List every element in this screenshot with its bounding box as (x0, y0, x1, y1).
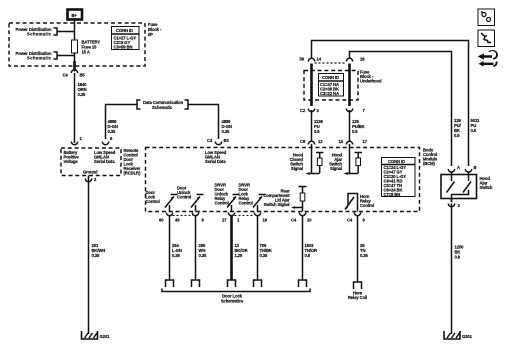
svg-text:B3: B3 (224, 138, 230, 143)
BCM top pin 12 connector (300, 139, 323, 145)
wire label 251 BK/WH 0.35 (92, 243, 106, 258)
svg-text:Switch Signal: Switch Signal (264, 202, 290, 207)
svg-text:12: 12 (318, 139, 323, 144)
svg-text:Schematics: Schematics (221, 299, 244, 304)
BCM GMLAN pin connector C4 B3 (207, 138, 229, 145)
svg-text:0.5: 0.5 (314, 129, 320, 134)
svg-text:Signal: Signal (291, 166, 303, 171)
svg-text:Control: Control (239, 201, 253, 206)
svg-text:0.35: 0.35 (222, 129, 231, 134)
CONN ID table (fuse block) (112, 27, 140, 50)
svg-text:Underhood: Underhood (360, 79, 382, 84)
svg-text:I/P: I/P (148, 32, 153, 37)
battery B+ terminal (68, 10, 83, 20)
wire BCM pin A down to door lock schematics (169, 216, 171, 281)
wire label 1250 BK 0.8 (455, 245, 465, 260)
svg-text:Signal: Signal (330, 166, 342, 171)
svg-text:G301: G301 (462, 334, 473, 339)
RCDLR pin text low speed GMLAN serial data (94, 150, 116, 164)
svg-text:Voltage: Voltage (64, 159, 79, 164)
wire label 1139 PU 0.5 (314, 119, 323, 134)
svg-text:59: 59 (300, 57, 305, 62)
svg-text:C4: C4 (291, 218, 297, 223)
svg-text:0.35: 0.35 (172, 253, 181, 258)
svg-text:10: 10 (307, 218, 312, 223)
RCDLR dashed box (61, 148, 121, 176)
svg-text:17: 17 (363, 139, 368, 144)
svg-text:0.35: 0.35 (360, 253, 369, 258)
svg-text:C3=59 BN: C3=59 BN (114, 45, 133, 50)
wire B+ down to fuse (74, 20, 76, 41)
svg-text:B+: B+ (72, 13, 78, 18)
underhood fuse block dashed box (304, 71, 358, 101)
svg-text:CONN ID: CONN ID (116, 28, 133, 33)
RCDLR pin text battery positive voltage (64, 150, 80, 164)
label RCDLR (124, 148, 141, 176)
icon recycle arrows (478, 50, 498, 67)
wire label 4889 D-GN 0.35 (right) (222, 119, 232, 134)
wire BCM pin F down to horn relay (357, 216, 359, 283)
wire BCM pin B down (195, 216, 197, 281)
connector C4 / B5 below fuse block (63, 61, 86, 78)
svg-text:0.5: 0.5 (454, 133, 460, 138)
svg-text:A: A (457, 165, 460, 170)
svg-text:CONN ID: CONN ID (388, 159, 405, 164)
wire label 294 L-GN 0.35 (172, 243, 182, 258)
label Body Control Module (BCM) (423, 148, 438, 167)
terminal pin B (192, 280, 200, 287)
terminal pin E (299, 280, 307, 287)
hood ajar switch pin A connector (448, 165, 460, 172)
icon box key 1 (478, 9, 495, 26)
svg-text:0.35: 0.35 (199, 253, 208, 258)
BCM pin E connector C4 / 10 (291, 213, 312, 223)
svg-text:Relay Coil: Relay Coil (348, 295, 367, 300)
hood ajar switch bottom pin 3 connector (448, 199, 460, 209)
svg-text:1.25: 1.25 (235, 253, 244, 258)
svg-text:G201: G201 (100, 334, 111, 339)
RCDLR pin 6 connector (102, 136, 113, 145)
svg-text:Control: Control (177, 195, 191, 200)
wire data comm to BCM GMLAN pin (188, 105, 219, 140)
BCM pin B connector 8 (192, 213, 204, 223)
svg-text:Serial Data: Serial Data (94, 159, 115, 164)
svg-text:0.5: 0.5 (305, 253, 311, 258)
BCM input pin E rear compartment lid ajar switch signal (263, 187, 306, 212)
power distribution schematic reference 2 (16, 51, 75, 61)
BCM top pin 17 connector (339, 139, 368, 145)
svg-text:(RCDLR): (RCDLR) (124, 171, 141, 176)
BCM output driver pin D DRVR door lock relay control (239, 183, 266, 212)
dotted link connector 14 to 16 (315, 62, 347, 64)
wire BCM pin D down (257, 216, 259, 281)
wire fuse block to RCDLR pin 1 (74, 73, 76, 143)
svg-text:Control: Control (146, 199, 160, 204)
connector 59 14 (300, 57, 322, 62)
svg-text:Schematic: Schematic (27, 32, 52, 37)
wire label 5011 PU 0.5 (right of switch) (471, 118, 480, 133)
svg-text:B5: B5 (80, 73, 86, 78)
wire label 709 TN/BK 0.35 (260, 243, 272, 258)
label hood ajar switch (480, 176, 493, 190)
BCM relay driver pin F horn relay control (345, 194, 374, 212)
svg-text:0.35: 0.35 (260, 253, 269, 258)
svg-text:C9: C9 (300, 139, 306, 144)
horn relay coil terminal (348, 282, 367, 300)
wire label 139 PU/ BK 0.5 (left of switch) (454, 118, 462, 138)
wire hood closed circuit up and right to switch (312, 41, 469, 167)
svg-text:0.8: 0.8 (455, 255, 461, 260)
dotted link pin A to pin B (173, 215, 194, 217)
fuse block I/P dashed box (9, 23, 145, 66)
svg-text:(BCM): (BCM) (423, 161, 436, 166)
svg-text:CONN ID: CONN ID (322, 75, 339, 80)
wire fuse to bottom edge (74, 53, 76, 72)
wire label 4889 D-GN 0.35 (left) (108, 119, 118, 134)
svg-text:14: 14 (317, 57, 322, 62)
door lock schematics bracket (162, 289, 310, 304)
svg-text:14: 14 (339, 139, 344, 144)
wire label 13 BK/OR 1.25 (235, 243, 248, 258)
BCM pin C connector 27 / 1 (222, 213, 240, 223)
ground G301 (444, 331, 473, 339)
bold wire segment through underhood block (right) (348, 64, 351, 107)
svg-text:Schematic: Schematic (152, 105, 173, 110)
CONN ID table (BCM) (382, 158, 416, 198)
svg-text:Control: Control (215, 201, 229, 206)
svg-text:Control: Control (360, 203, 374, 208)
svg-text:0.5: 0.5 (352, 129, 358, 134)
svg-text:0.35: 0.35 (92, 253, 101, 258)
svg-text:Schematic: Schematic (27, 56, 52, 61)
svg-text:C4: C4 (347, 218, 353, 223)
svg-text:Switch: Switch (480, 185, 493, 190)
connector 7 (346, 108, 365, 113)
label Fuse Block I/P (148, 22, 162, 37)
wire label 28 TN 0.35 (360, 243, 369, 258)
svg-text:16: 16 (360, 57, 365, 62)
svg-text:15 A: 15 A (82, 50, 90, 55)
wire RCDLR ground down (88, 176, 90, 335)
svg-text:C2: C2 (300, 108, 306, 113)
BCM text low speed GMLAN serial data (205, 150, 227, 164)
connector 16 (346, 57, 365, 62)
BCM pin F connector C4 / 9 (347, 213, 366, 223)
ground G201 (82, 331, 111, 339)
wire pin17 up to connector 7 (349, 110, 351, 142)
svg-text:B: B (474, 165, 477, 170)
terminal pin C (228, 280, 236, 287)
BCM pin A connector 60 / 49 (159, 213, 180, 223)
BCM pin D connector 16 (254, 213, 267, 223)
svg-text:0.35: 0.35 (78, 92, 87, 97)
svg-text:C7=8 BN: C7=8 BN (384, 192, 401, 197)
wire data comm to RCDLR pin 6 (106, 105, 138, 140)
svg-text:Ground: Ground (83, 170, 98, 175)
icon box key 2 (478, 30, 495, 47)
svg-text:27: 27 (222, 218, 227, 223)
connector C2 3 (300, 108, 320, 113)
data communication schematic reference (137, 100, 188, 110)
wire BCM pin C down (bold) (230, 216, 233, 281)
terminal pin D (254, 280, 262, 287)
RCDLR ground pin connector (85, 177, 97, 182)
svg-text:0.5: 0.5 (471, 128, 477, 133)
wire label 295 WH 0.35 (199, 243, 208, 258)
svg-text:C4: C4 (63, 73, 69, 78)
RCDLR pin 1 connector (71, 136, 82, 145)
svg-text:16: 16 (263, 218, 268, 223)
svg-text:0.35: 0.35 (108, 129, 117, 134)
BCM output driver pin C DRVR door unlock relay control (215, 183, 240, 212)
BCM input pin 1 hood closed switch signal with pullup resistor (290, 144, 324, 175)
BCM dashed box (146, 148, 420, 212)
hood ajar switch pin B connector (465, 165, 476, 172)
hood ajar switch box (441, 171, 477, 202)
svg-text:Serial Data: Serial Data (205, 159, 226, 164)
wire switch to ground G301 (451, 204, 453, 335)
wire pin12 up to connector 3 (311, 110, 313, 142)
svg-text:C3=22 NA: C3=22 NA (320, 91, 339, 96)
dotted link pin C to pin D (235, 215, 255, 217)
power distribution schematic reference 1 (16, 27, 75, 37)
svg-text:49: 49 (175, 218, 180, 223)
wire label 139 PU/BK 0.5 (352, 119, 365, 134)
svg-text:60: 60 (159, 218, 164, 223)
wire hood ajar circuit up and right to switch (350, 52, 452, 167)
wire BCM pin E down (302, 216, 304, 281)
bold wire segment through underhood block (left) (310, 64, 313, 107)
wire label 1503 TN/OR 0.5 (305, 243, 318, 258)
terminal pin A (166, 280, 174, 287)
wire label 1840 ORN 0.35 (78, 82, 88, 97)
BCM output driver pin A door lock control (146, 190, 178, 212)
label fuse block underhood (360, 70, 382, 84)
svg-text:C4: C4 (207, 138, 213, 143)
fuse BATTERY 15A (72, 40, 101, 55)
CONN ID table (underhood) (319, 74, 344, 97)
BCM output driver pin B door unlock control (177, 186, 204, 212)
BCM input pin 2 hood ajar switch signal with pullup resistor (329, 144, 362, 175)
